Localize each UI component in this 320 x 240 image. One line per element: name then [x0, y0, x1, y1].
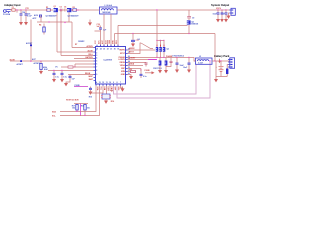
ground J3 pin2 [228, 13, 231, 16]
ground battery [214, 79, 218, 82]
net label dot x31 ACDET [26, 42, 33, 46]
ground C15 [64, 83, 68, 86]
svg-text:R4: R4 [39, 24, 41, 27]
junction battery x215 [214, 60, 215, 61]
wire Q4 sources [160, 66, 166, 71]
svg-text:ACDET: ACDET [26, 42, 33, 45]
svg-text:PGND: PGND [145, 70, 151, 72]
svg-text:11: 11 [106, 82, 108, 84]
junction SDA [76, 111, 77, 112]
wire bottom pin x106.5 cap [89, 86, 114, 103]
capacitor C13 [53, 71, 59, 80]
svg-text:Battery Pack: Battery Pack [214, 54, 230, 58]
svg-text:8: 8 [96, 70, 97, 72]
svg-text:8: 8 [117, 82, 118, 84]
junction drain x164 [163, 40, 164, 41]
wire srn line y33.5 [115, 34, 216, 47]
wire x61 drop [60, 11, 62, 56]
capacitor x141 [140, 69, 147, 79]
wire Q4 drains [160, 58, 166, 61]
svg-text:C9: C9 [192, 17, 194, 19]
resistor x133 [131, 70, 136, 72]
magenta gate overlay [148, 59, 157, 61]
wire pin y65.5 [128, 65, 144, 67]
wire chain seg [65, 9, 68, 11]
junction srn x191 [188, 33, 189, 34]
junction gate x65 [64, 22, 65, 23]
ground Q4a [158, 70, 162, 73]
svg-text:1: 1 [96, 50, 97, 52]
svg-text:ACOK: ACOK [88, 49, 94, 52]
wire rail to inductor [77, 9, 98, 11]
wire x157 rail drop [156, 10, 158, 41]
svg-text:CSD17310: CSD17310 [153, 68, 162, 70]
junction x35 y61 [30, 61, 31, 62]
svg-text:bq24780S: bq24780S [104, 59, 113, 62]
capacitor C22 [176, 58, 185, 70]
ground C1 [19, 22, 23, 25]
svg-text:System Output: System Output [211, 3, 229, 7]
wire x72 drop [69, 12, 72, 47]
wire adapter rail segment 1 [11, 9, 47, 12]
junction gate x61 [60, 21, 61, 22]
svg-text:VDDA: VDDA [129, 63, 135, 66]
capacitor C9 on x191 [187, 17, 194, 20]
wire VDDA pin [128, 62, 147, 64]
capacitor C12 [221, 10, 228, 19]
pin stub L2 right [212, 60, 230, 62]
svg-text:CMSRC: CMSRC [78, 41, 85, 43]
svg-text:Q2 SI4435DY: Q2 SI4435DY [68, 14, 80, 17]
connector J1 adapter jack [3, 10, 10, 14]
wire pin6 [75, 64, 94, 67]
capacitor C14 [61, 71, 67, 80]
svg-text:3.3uH: 3.3uH [198, 63, 204, 65]
inductor L2 box [196, 58, 213, 65]
transistor Q5 [187, 20, 199, 25]
ground Q4b [164, 70, 168, 73]
junction gate x49 [48, 21, 49, 22]
svg-text:C6: C6 [64, 7, 66, 9]
wire IC top pin x107.5 [107, 40, 109, 46]
magenta net line [74, 86, 88, 88]
arrow battery current [218, 59, 220, 63]
svg-text:R16: R16 [111, 101, 114, 103]
wire ACDRV pin1 [72, 47, 94, 49]
wire ACDET pin5 [10, 60, 94, 62]
svg-text:ACDET: ACDET [17, 63, 24, 66]
junction drain x157 [156, 40, 157, 41]
wire chain seg [72, 9, 73, 11]
wire drains down [157, 41, 164, 48]
ground C16 [89, 92, 93, 95]
resistor R11 pullup [81, 104, 90, 116]
wire bottom pin ILIM x103 [89, 86, 103, 93]
IC left pin stubs [94, 48, 96, 81]
wire pin8 ILIM [48, 70, 94, 72]
svg-text:HIDRV: HIDRV [129, 48, 135, 50]
ground C22 [175, 70, 179, 73]
IC bottom pin numbers [95, 81, 121, 84]
ground C17 [131, 44, 135, 47]
transistor Q3 bank [156, 47, 169, 52]
svg-text:U2: U2 [138, 39, 140, 41]
wire GND pin right [128, 75, 132, 77]
battery BT1 [216, 61, 224, 77]
bus SRP [114, 64, 197, 94]
wire SDA [60, 86, 96, 112]
junction phase dots [156, 57, 157, 58]
ground R5 [39, 71, 43, 74]
pin stub L1 right [117, 9, 119, 11]
svg-text:C24: C24 [22, 11, 25, 14]
capacitor near IC top-left [95, 24, 108, 46]
wire pullup rail [74, 103, 88, 105]
IC bottom pin stubs [96, 84, 121, 86]
svg-text:12: 12 [102, 82, 104, 84]
capacitor C23 [183, 58, 191, 70]
svg-text:R1: R1 [46, 7, 48, 9]
IC right pin labels inside [119, 50, 126, 76]
svg-text:PJ-002A: PJ-002A [3, 13, 11, 16]
pin marks Q3 bank [157, 45, 165, 47]
junction rail x21 [20, 9, 21, 10]
svg-text:24: 24 [100, 48, 102, 51]
ground chain [88, 22, 92, 25]
svg-text:F1: F1 [12, 7, 14, 9]
port arrow PGND [145, 70, 155, 74]
svg-text:LODRV: LODRV [129, 58, 136, 60]
svg-text:21: 21 [110, 49, 112, 51]
IC bottom pin labels [96, 87, 123, 93]
svg-text:R8: R8 [130, 69, 132, 71]
junction ilim x54 [53, 70, 54, 71]
wire pin3 [61, 55, 94, 57]
svg-text:20: 20 [114, 49, 116, 51]
ground C2 [24, 22, 28, 25]
wire J1 pin stub [16, 10, 18, 13]
svg-text:Q1 SI4435DY: Q1 SI4435DY [46, 14, 58, 17]
thermistor RT1 [226, 65, 228, 77]
wire x57 ACDRV drop [56, 12, 58, 52]
wire x191 rail drop [188, 10, 190, 34]
ground C23 [187, 70, 191, 73]
svg-text:1%: 1% [55, 67, 58, 69]
svg-text:5: 5 [96, 61, 97, 63]
transistor Q1 ACFET [54, 8, 58, 12]
junction rail x78 [77, 9, 78, 10]
junction x75 y67 [74, 66, 75, 67]
svg-text:VSYS: VSYS [216, 8, 222, 10]
wire L1 leg B [110, 14, 112, 46]
wire drain bus [157, 40, 164, 42]
svg-text:ACOK: ACOK [10, 58, 16, 61]
svg-text:Q1: Q1 [54, 6, 56, 8]
IC right pin numbers [128, 48, 130, 75]
inductor L1 box [100, 7, 118, 14]
svg-text:10: 10 [109, 82, 111, 84]
ground C10b [220, 19, 224, 22]
wire pin2 [57, 51, 94, 53]
resistor R5 divider [40, 61, 47, 71]
capacitor C11 [213, 10, 220, 19]
svg-text:14: 14 [95, 81, 97, 84]
svg-text:GND: GND [121, 74, 126, 76]
svg-text:L1 6.8uH: L1 6.8uH [105, 5, 113, 7]
svg-text:PGND: PGND [75, 85, 81, 87]
capacitor C16 [89, 87, 92, 92]
pin stub L1 left [98, 9, 100, 11]
svg-text:ILIM: ILIM [44, 69, 48, 71]
label left lower pins [89, 75, 94, 81]
svg-text:REGN: REGN [85, 73, 91, 75]
wire battery minus x216 [216, 61, 227, 79]
wire regn line y28.5 [118, 25, 188, 46]
wire pin7 with resistor R6 [61, 66, 94, 68]
ground C13 [52, 79, 56, 82]
capacitor C17 bootstrap [131, 33, 139, 44]
junction sys x226 [225, 9, 226, 10]
svg-text:HIDRV: HIDRV [119, 50, 125, 52]
wire SRN right with resistor [128, 71, 137, 73]
svg-text:+: + [216, 67, 217, 69]
resistor R2 AC sense [72, 9, 77, 12]
svg-text:R2: R2 [73, 7, 75, 9]
junction SCL [84, 115, 85, 116]
wire magenta i2c [80, 104, 82, 117]
svg-text:ACN: ACN [34, 14, 39, 17]
bus SRN [117, 61, 210, 98]
capacitor C2 [25, 10, 28, 22]
svg-text:22: 22 [107, 49, 109, 51]
svg-text:C5: C5 [60, 7, 62, 9]
svg-text:REG: REG [116, 40, 118, 44]
connector J3 system [229, 8, 235, 15]
svg-text:BATDRV: BATDRV [85, 56, 93, 59]
wire bottom pin x110 [110, 86, 113, 91]
wire LODRV [128, 59, 157, 61]
junction x41 y61 [40, 61, 41, 62]
wire SRP right [128, 68, 142, 70]
svg-text:VDDA: VDDA [120, 64, 126, 67]
resistor R10 pullup [72, 104, 78, 112]
wire bootstrap diagonal [141, 43, 153, 49]
junction battery x221 [220, 60, 221, 61]
svg-text:13: 13 [99, 82, 101, 84]
junction rail x17 [16, 9, 17, 10]
net dot x21 [17, 58, 41, 66]
svg-text:0.1u: 0.1u [55, 76, 59, 78]
junction sys x218 [217, 9, 218, 10]
svg-text:R7: R7 [75, 44, 77, 46]
svg-text:L2: L2 [199, 56, 201, 58]
ground pin x120.5 [121, 88, 125, 91]
connector J2 battery [228, 58, 235, 69]
junction ilim x62 [61, 70, 62, 71]
wire x215 sys drop [214, 34, 216, 62]
wire bottom pin x120.5 gnd [121, 86, 123, 88]
fuse F1 [12, 9, 15, 11]
svg-text:9: 9 [96, 74, 97, 76]
ground C20 [104, 101, 108, 104]
resistor R1 input sense [46, 9, 51, 12]
svg-text:ACDRV: ACDRV [86, 45, 93, 48]
IC left pin numbers [96, 50, 97, 76]
transistor Q4 bank [153, 61, 167, 70]
junction sys x222 [221, 9, 222, 10]
svg-text:10k: 10k [87, 108, 90, 110]
junction battery x210 [209, 60, 210, 61]
svg-text:REGN: REGN [120, 62, 126, 64]
capacitor C5 series pair [60, 9, 66, 12]
svg-text:MSS1048: MSS1048 [103, 11, 111, 14]
IC top pin stubs [97, 45, 118, 47]
transistor Q2 ACFET [67, 8, 71, 12]
svg-text:LODRV: LODRV [119, 59, 126, 61]
svg-text:10k: 10k [72, 108, 75, 110]
svg-text:6: 6 [96, 64, 97, 66]
resistor R4 pullup [39, 24, 45, 35]
wire SCL [60, 86, 100, 116]
svg-text:PHASE: PHASE [166, 55, 173, 58]
net label above pin1 [75, 41, 85, 46]
wire vertical x41 to gate line [40, 16, 42, 22]
net label ACN block [33, 14, 42, 20]
svg-text:4: 4 [96, 57, 97, 60]
ground C11 [216, 19, 220, 22]
svg-text:ACN: ACN [105, 39, 108, 44]
wire L1 leg A [103, 14, 105, 46]
svg-text:BSS138: BSS138 [191, 24, 198, 26]
wire chain seg [51, 9, 54, 11]
capacitor C10b [221, 10, 224, 19]
IC top pin numbers [96, 48, 119, 51]
svg-text:7: 7 [120, 82, 121, 84]
junction rail x26 [25, 9, 26, 10]
wire BTST [128, 43, 142, 54]
snubber R C x171 [166, 58, 173, 67]
ground C14 [60, 79, 64, 82]
wire HIDRV [128, 49, 156, 51]
ground C12 [224, 19, 228, 22]
wire gate line y22 [37, 21, 72, 23]
junction chain x61 [60, 9, 61, 10]
svg-text:0.1u: 0.1u [63, 76, 67, 78]
junction drain x160.5 [160, 40, 161, 41]
junction x141 [140, 69, 141, 70]
wire sources to phase [157, 52, 164, 58]
svg-text:23: 23 [103, 49, 105, 51]
svg-text:1 IHLP2525CZ: 1 IHLP2525CZ [172, 56, 185, 58]
svg-text:HOST I2C BUS: HOST I2C BUS [66, 100, 79, 102]
resistor R6 [68, 66, 73, 68]
svg-text:Q3: Q3 [167, 49, 169, 51]
svg-text:R18: R18 [81, 106, 84, 108]
wire vertical x31 ACDET feed [30, 20, 32, 62]
capacitor C15 [66, 75, 76, 84]
svg-text:7: 7 [96, 67, 97, 69]
svg-text:0.1u: 0.1u [143, 76, 147, 78]
IC U1 bq24780S [96, 47, 126, 85]
capacitor x146 [145, 63, 148, 64]
pin stub L2 left [194, 60, 196, 62]
capacitor C1 [20, 10, 23, 22]
wire chain seg [58, 9, 60, 11]
wire phase node [128, 58, 197, 62]
wire pin4 [74, 58, 94, 60]
wire pin9 REGN [68, 74, 94, 76]
svg-text:9: 9 [113, 82, 114, 84]
junction rail x157 [156, 9, 157, 10]
IC right pin stubs [126, 50, 128, 75]
svg-text:R15: R15 [89, 97, 92, 99]
IC top pin labels [95, 39, 118, 44]
ground right pin [129, 76, 133, 79]
wire rail right of L1 [119, 9, 230, 11]
